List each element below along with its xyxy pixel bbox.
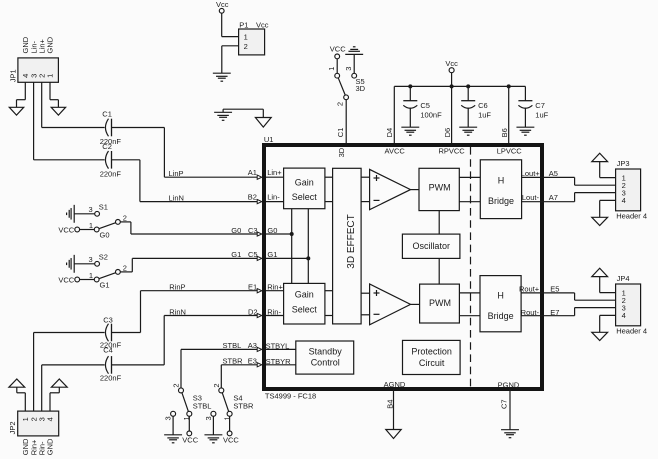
- svg-text:PGND: PGND: [498, 380, 520, 389]
- svg-text:C3: C3: [103, 316, 113, 325]
- svg-text:1: 1: [244, 33, 248, 42]
- svg-text:GND: GND: [46, 438, 55, 455]
- svg-text:3D: 3D: [337, 147, 346, 157]
- svg-text:C5: C5: [420, 101, 430, 110]
- svg-text:B6: B6: [500, 128, 509, 137]
- svg-text:S1: S1: [99, 202, 108, 211]
- svg-text:Rout-: Rout-: [521, 308, 540, 317]
- svg-text:C6: C6: [478, 101, 488, 110]
- svg-text:2: 2: [172, 383, 181, 387]
- svg-text:C2: C2: [102, 142, 112, 151]
- svg-text:D2: D2: [248, 308, 258, 317]
- svg-text:G1: G1: [267, 250, 277, 259]
- svg-text:JP1: JP1: [9, 69, 18, 82]
- svg-text:G0: G0: [100, 230, 110, 239]
- svg-text:E3: E3: [248, 356, 257, 365]
- svg-text:Vcc: Vcc: [216, 0, 229, 9]
- svg-text:JP2: JP2: [8, 421, 17, 434]
- svg-text:1: 1: [89, 271, 93, 280]
- svg-text:S2: S2: [99, 252, 108, 261]
- svg-text:Lout-: Lout-: [522, 193, 540, 202]
- svg-text:B2: B2: [248, 193, 257, 202]
- svg-text:G1: G1: [231, 250, 241, 259]
- svg-text:PWM: PWM: [429, 182, 451, 192]
- svg-text:C7: C7: [500, 399, 509, 409]
- svg-text:C3: C3: [248, 226, 258, 235]
- svg-text:LPVCC: LPVCC: [497, 147, 523, 156]
- svg-text:2: 2: [244, 42, 248, 51]
- svg-text:3: 3: [89, 255, 93, 264]
- svg-text:4: 4: [46, 417, 55, 421]
- svg-text:H: H: [498, 175, 505, 185]
- svg-text:A5: A5: [549, 169, 558, 178]
- svg-text:4: 4: [622, 196, 626, 205]
- svg-text:VCC: VCC: [330, 45, 346, 54]
- svg-text:A3: A3: [248, 341, 257, 350]
- svg-text:Protection: Protection: [411, 347, 452, 357]
- svg-text:C7: C7: [535, 101, 545, 110]
- svg-text:C5: C5: [248, 250, 258, 259]
- svg-text:3: 3: [204, 416, 213, 420]
- svg-text:Rin+: Rin+: [267, 283, 283, 292]
- svg-text:U1: U1: [264, 135, 274, 144]
- svg-text:STBL: STBL: [193, 402, 212, 411]
- svg-text:STBYR: STBYR: [266, 357, 292, 366]
- svg-text:VCC: VCC: [223, 435, 239, 444]
- svg-text:Bridge: Bridge: [488, 311, 514, 321]
- svg-text:JP4: JP4: [617, 274, 630, 283]
- svg-text:1uF: 1uF: [478, 110, 491, 119]
- svg-text:A7: A7: [549, 193, 558, 202]
- svg-text:TS4999 - FC18: TS4999 - FC18: [265, 391, 316, 400]
- svg-text:STBL: STBL: [223, 341, 242, 350]
- svg-text:2: 2: [123, 213, 127, 222]
- svg-text:Bridge: Bridge: [488, 196, 514, 206]
- svg-text:1: 1: [89, 221, 93, 230]
- svg-text:G1: G1: [100, 280, 110, 289]
- svg-text:1: 1: [327, 67, 336, 71]
- svg-text:Lin-: Lin-: [267, 193, 280, 202]
- svg-text:2: 2: [212, 383, 221, 387]
- svg-text:STBR: STBR: [233, 402, 254, 411]
- svg-text:H: H: [497, 290, 504, 300]
- svg-text:C1: C1: [102, 110, 112, 119]
- svg-text:1: 1: [46, 74, 55, 78]
- svg-text:Rout+: Rout+: [519, 285, 540, 294]
- svg-text:3: 3: [89, 205, 93, 214]
- svg-text:Standby: Standby: [309, 347, 343, 357]
- svg-text:Select: Select: [292, 192, 318, 202]
- svg-text:VCC: VCC: [58, 276, 74, 285]
- svg-text:3: 3: [164, 416, 173, 420]
- svg-text:VCC: VCC: [182, 435, 198, 444]
- svg-text:RinP: RinP: [169, 283, 185, 292]
- svg-text:Select: Select: [292, 304, 318, 314]
- svg-text:D4: D4: [385, 128, 394, 138]
- svg-text:G0: G0: [267, 226, 277, 235]
- svg-text:D6: D6: [443, 128, 452, 138]
- svg-text:E1: E1: [248, 283, 257, 292]
- svg-text:Rin-: Rin-: [267, 308, 281, 317]
- svg-text:Control: Control: [311, 358, 340, 368]
- svg-text:4: 4: [622, 311, 626, 320]
- svg-text:AGND: AGND: [384, 380, 406, 389]
- svg-text:3: 3: [344, 67, 353, 71]
- svg-text:Gain: Gain: [295, 290, 314, 300]
- svg-text:Lout+: Lout+: [521, 169, 541, 178]
- svg-text:VCC: VCC: [58, 226, 74, 235]
- svg-text:2: 2: [123, 263, 127, 272]
- svg-text:220nF: 220nF: [100, 169, 122, 178]
- svg-text:C1: C1: [336, 128, 345, 138]
- svg-text:GND: GND: [46, 36, 55, 53]
- svg-text:100nF: 100nF: [420, 110, 442, 119]
- svg-text:C4: C4: [103, 346, 113, 355]
- svg-text:Vcc: Vcc: [445, 59, 458, 68]
- svg-text:LinP: LinP: [169, 169, 184, 178]
- svg-text:Gain: Gain: [295, 177, 314, 187]
- svg-text:Lin+: Lin+: [267, 168, 282, 177]
- svg-text:1uF: 1uF: [535, 110, 548, 119]
- svg-text:Circuit: Circuit: [419, 358, 445, 368]
- svg-text:G0: G0: [231, 226, 241, 235]
- svg-text:Header 4: Header 4: [616, 211, 647, 220]
- svg-text:STBYL: STBYL: [266, 341, 290, 350]
- svg-text:P1: P1: [239, 20, 248, 29]
- svg-text:STBR: STBR: [223, 356, 244, 365]
- svg-text:E5: E5: [550, 285, 559, 294]
- svg-text:3D EFFECT: 3D EFFECT: [346, 214, 357, 268]
- svg-text:2: 2: [335, 102, 344, 106]
- svg-text:RPVCC: RPVCC: [438, 147, 465, 156]
- svg-text:AVCC: AVCC: [385, 147, 406, 156]
- svg-text:B4: B4: [385, 400, 394, 409]
- svg-text:Oscillator: Oscillator: [412, 241, 450, 251]
- svg-text:Header 4: Header 4: [616, 326, 647, 335]
- svg-text:PWM: PWM: [429, 298, 451, 308]
- svg-text:220nF: 220nF: [100, 374, 122, 383]
- svg-text:RinN: RinN: [169, 307, 186, 316]
- svg-text:LinN: LinN: [169, 193, 184, 202]
- svg-text:3D: 3D: [356, 84, 366, 93]
- svg-text:JP3: JP3: [617, 159, 630, 168]
- svg-text:Vcc: Vcc: [256, 20, 269, 29]
- svg-text:A1: A1: [248, 168, 257, 177]
